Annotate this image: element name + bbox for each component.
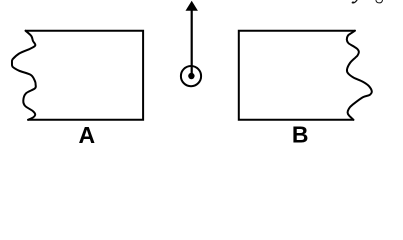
arrow shaft (191, 11, 193, 77)
region B torn right edge (wavy) (347, 31, 372, 120)
arrowhead (186, 1, 198, 11)
cropped text descender 1 (top right) (352, 0, 357, 3)
region A torn left edge (wavy) (12, 31, 36, 120)
svg-text:B: B (292, 122, 309, 148)
current-out-of-page symbol: center dot (188, 73, 194, 79)
cropped text descender 1 heavy tip (352, 1, 354, 3)
svg-text:A: A (78, 122, 95, 148)
current-out-of-page symbol: circle (181, 66, 201, 86)
cropped text descender 2 (top right) (376, 0, 383, 3)
region A straight edges (top, right, bottom) (26, 31, 144, 120)
region B straight edges (top, left, bottom) (239, 31, 355, 120)
